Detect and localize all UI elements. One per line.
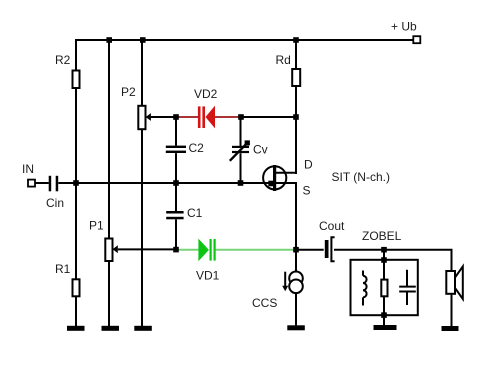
svg-text:VD1: VD1	[196, 269, 220, 283]
svg-text:R2: R2	[55, 53, 71, 67]
svg-text:Cv: Cv	[253, 143, 268, 157]
svg-text:Rd: Rd	[276, 53, 291, 67]
svg-text:+ Ub: + Ub	[391, 20, 417, 34]
svg-text:SIT (N-ch.): SIT (N-ch.)	[332, 170, 390, 184]
svg-text:R1: R1	[55, 262, 71, 276]
svg-text:VD2: VD2	[194, 87, 218, 101]
svg-text:S: S	[303, 184, 311, 198]
svg-text:Cin: Cin	[46, 196, 64, 210]
svg-text:Cout: Cout	[319, 219, 345, 233]
svg-text:IN: IN	[22, 162, 34, 176]
svg-text:C2: C2	[189, 141, 205, 155]
svg-text:C1: C1	[187, 206, 203, 220]
svg-text:D: D	[304, 158, 313, 172]
svg-text:CCS: CCS	[252, 296, 277, 310]
svg-text:P2: P2	[121, 85, 136, 99]
svg-text:ZOBEL: ZOBEL	[362, 229, 402, 243]
svg-text:P1: P1	[89, 219, 104, 233]
